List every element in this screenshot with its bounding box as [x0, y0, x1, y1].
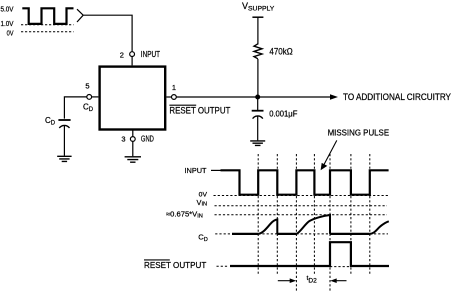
svg-text:470kΩ: 470kΩ: [269, 47, 292, 57]
svg-text:MISSING PULSE: MISSING PULSE: [328, 128, 390, 138]
svg-text:INPUT: INPUT: [185, 166, 207, 175]
svg-text:RESET OUTPUT: RESET OUTPUT: [169, 105, 230, 116]
svg-text:0V: 0V: [7, 29, 14, 38]
svg-text:5.0V: 5.0V: [1, 5, 14, 14]
svg-text:TO ADDITIONAL CIRCUITRY: TO ADDITIONAL CIRCUITRY: [343, 92, 451, 102]
svg-text:3: 3: [121, 134, 125, 143]
svg-text:1.0V: 1.0V: [1, 19, 14, 28]
svg-text:GND: GND: [141, 134, 154, 143]
svg-text:1: 1: [172, 83, 176, 92]
svg-text:INPUT: INPUT: [141, 50, 160, 59]
svg-text:2: 2: [120, 50, 124, 59]
svg-text:5: 5: [85, 82, 89, 91]
svg-text:RESET OUTPUT: RESET OUTPUT: [144, 260, 207, 270]
svg-text:0.001μF: 0.001μF: [269, 110, 297, 119]
